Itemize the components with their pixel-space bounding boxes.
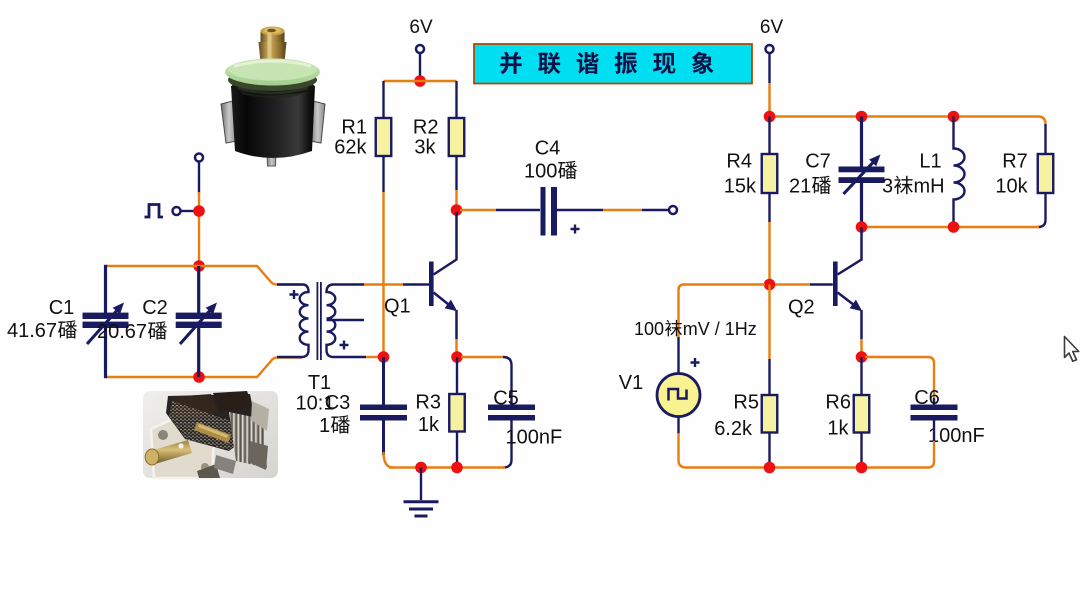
wire V1 top — [679, 285, 766, 338]
svg-text:R3: R3 — [415, 392, 441, 414]
resistor R7 top lead — [1044, 124, 1046, 154]
resistor R7 bottom lead — [1038, 193, 1046, 227]
wire T1 secondary bottom to node — [366, 356, 378, 358]
capacitor C6 plates — [911, 405, 958, 411]
capacitor C7 arrow — [844, 160, 876, 194]
photo: variable capacitor — [143, 391, 278, 478]
svg-text:C2: C2 — [142, 297, 168, 319]
node: rail at R6 — [856, 462, 868, 474]
svg-text:C5: C5 — [493, 388, 519, 410]
transistor Q1 emitter — [434, 293, 451, 307]
photo: trimmer capacitor — [221, 27, 325, 167]
svg-text:Q1: Q1 — [384, 296, 411, 318]
capacitor C3 top lead — [382, 357, 385, 405]
polarity + (C4) — [571, 225, 580, 234]
transformer T1 secondary tap — [327, 319, 365, 321]
resistor R3 top lead — [456, 357, 458, 394]
capacitor C3 bottom lead — [382, 421, 385, 456]
node: tank bottom — [193, 371, 205, 383]
input terminal (pulse) — [173, 207, 181, 215]
node: input junction — [193, 205, 205, 217]
capacitor C2 plates — [176, 313, 222, 319]
wire input drop — [198, 161, 200, 193]
svg-text:1k: 1k — [827, 418, 849, 440]
node: rail at C7 — [856, 111, 868, 123]
svg-text:100nF: 100nF — [506, 427, 563, 449]
svg-text:20.67: 20.67 — [97, 321, 147, 343]
title box — [474, 44, 752, 84]
node: rail at R4 — [764, 111, 776, 123]
resistor R4 top lead — [768, 117, 770, 155]
capacitor C7 bottom lead — [860, 183, 863, 227]
svg-text:100nF: 100nF — [928, 425, 985, 447]
svg-text:mV / 1Hz: mV / 1Hz — [683, 319, 757, 339]
svg-text:R7: R7 — [1002, 151, 1028, 173]
svg-text:C6: C6 — [914, 387, 940, 409]
capacitor C5 bottom lead — [503, 421, 512, 468]
node: Q1 emitter junction — [451, 351, 463, 363]
svg-text:C4: C4 — [535, 138, 561, 160]
wire C4 to output — [557, 209, 603, 211]
svg-text:6V: 6V — [409, 17, 433, 38]
title text 并联谐振现象 — [500, 52, 521, 74]
svg-text:C1: C1 — [49, 297, 75, 319]
transformer T1 core — [316, 282, 318, 360]
source V1 waveform — [669, 389, 687, 401]
transformer T1 secondary winding — [327, 285, 367, 358]
wire tank bottom rail — [106, 358, 303, 378]
svg-text:Q2: Q2 — [788, 297, 815, 319]
transistor Q2 collector — [838, 227, 862, 275]
svg-text:T1: T1 — [308, 372, 331, 394]
svg-text:C7: C7 — [805, 151, 831, 173]
svg-text:41.67: 41.67 — [7, 320, 57, 342]
wire pulse to node — [180, 210, 194, 212]
capacitor C3 plates — [360, 405, 407, 411]
power label 6V (left supply) — [409, 17, 433, 38]
svg-text:R2: R2 — [413, 117, 439, 139]
node: tank top — [193, 260, 205, 272]
capacitor C2 top lead — [197, 266, 200, 313]
node: T1/C3 junction — [378, 351, 390, 363]
capacitor C4 — [541, 187, 546, 236]
node: Q1 collector / C4 — [451, 204, 463, 216]
svg-text:3: 3 — [882, 176, 893, 198]
resistor R5 bottom lead — [768, 433, 770, 468]
input terminal top — [195, 154, 203, 162]
node: rail at R5 — [764, 462, 776, 474]
capacitor C5 plates — [488, 405, 535, 411]
svg-text:L1: L1 — [919, 151, 941, 173]
wire 6V left drop — [419, 53, 421, 77]
capacitor C2 arrow — [180, 308, 212, 344]
capacitor C7 top lead — [860, 117, 863, 168]
wire tank top rail (right) — [770, 117, 1046, 125]
capacitor C1 arrow — [87, 308, 119, 344]
transformer T1 primary winding — [277, 285, 309, 358]
svg-text:mH: mH — [914, 176, 945, 198]
wire R1 bottom (navy part) — [382, 156, 384, 192]
transistor Q2 base bar — [833, 262, 838, 307]
svg-text:10k: 10k — [995, 176, 1028, 198]
wire tank top rail — [106, 266, 303, 285]
svg-text:15k: 15k — [724, 176, 757, 198]
wire tank bottom rail (right) — [862, 226, 1040, 228]
svg-text:R4: R4 — [726, 151, 752, 173]
resistor R5 — [762, 395, 778, 433]
node: R3 bottom junction — [451, 462, 463, 474]
resistor R4 — [762, 154, 778, 193]
polarity + (V1) — [691, 358, 700, 367]
node: Q2 emitter junction — [856, 351, 868, 363]
svg-text:21: 21 — [789, 176, 811, 198]
node: tank bottom at L1 — [948, 221, 960, 233]
transistor Q1 base bar — [429, 262, 434, 307]
transistor Q2 emitter — [838, 293, 856, 307]
capacitor C1 top lead — [104, 265, 107, 313]
wire bottom rail (right) — [686, 466, 928, 468]
output terminal (left stage) — [669, 206, 677, 214]
resistor R4 bottom lead — [768, 193, 770, 222]
svg-text:V1: V1 — [619, 372, 643, 394]
resistor R5 top lead — [768, 285, 770, 360]
node: Q2 base junction — [764, 279, 776, 291]
wire T1 to Q1 base — [364, 283, 403, 285]
node: ground junction — [415, 462, 427, 474]
inductor L1 — [954, 117, 965, 228]
capacitor C6 bottom lead — [933, 421, 935, 442]
capacitor C1 plates — [83, 313, 129, 319]
wire 6V right drop — [768, 53, 770, 83]
capacitor C2 bottom lead — [197, 328, 200, 377]
capacitor C1 bottom lead — [104, 328, 107, 378]
polarity + (T1 secondary) — [340, 341, 349, 350]
svg-text:6.2k: 6.2k — [714, 418, 753, 440]
wire ground rail — [389, 466, 505, 468]
wire collector to C4 — [460, 209, 496, 211]
resistor R7 — [1038, 154, 1054, 193]
resistor R6 top lead — [860, 357, 862, 395]
svg-text:1k: 1k — [418, 414, 440, 436]
resistor R3 — [449, 394, 465, 432]
resistor R2 — [449, 118, 465, 156]
resistor R3 bottom lead — [456, 432, 458, 468]
wire V1 bottom — [677, 417, 679, 435]
svg-text:C3: C3 — [325, 392, 351, 414]
capacitor C7 plates — [839, 167, 885, 173]
node: rail at L1 — [948, 111, 960, 123]
node: left 6V rail junction — [414, 75, 426, 87]
wire R2 top — [455, 81, 457, 118]
power terminal 6V left — [416, 45, 424, 53]
svg-text:R6: R6 — [825, 392, 851, 414]
wire R2 bottom — [455, 156, 457, 190]
node: tank bottom at Q2 collector — [856, 221, 868, 233]
wire R1 to node (orange) — [382, 192, 384, 354]
wire emitter to C6 — [865, 356, 928, 358]
svg-text:100: 100 — [524, 161, 557, 183]
resistor R6 — [854, 395, 870, 433]
polarity + (T1 primary) — [290, 290, 299, 299]
svg-text:3k: 3k — [414, 137, 436, 159]
transistor Q1 collector — [434, 212, 457, 275]
resistor R1 — [376, 118, 392, 156]
ground — [420, 468, 422, 501]
wire left 6V rail — [384, 80, 457, 82]
mouse cursor — [1065, 337, 1079, 362]
svg-text:100: 100 — [634, 319, 664, 339]
svg-text:6V: 6V — [760, 17, 784, 38]
pulse source symbol — [145, 205, 164, 218]
wire base junction to Q2 — [773, 283, 810, 285]
wire R1 top — [382, 81, 384, 118]
wire C3 to ground rail — [384, 452, 394, 468]
svg-text:62k: 62k — [334, 137, 367, 159]
source V1 circle — [657, 374, 700, 417]
power terminal 6V right — [766, 45, 774, 53]
wire emitter to C5 — [461, 356, 503, 358]
resistor R6 bottom lead — [860, 433, 862, 468]
svg-text:R1: R1 — [341, 117, 367, 139]
svg-text:R5: R5 — [733, 392, 759, 414]
svg-text:1: 1 — [319, 415, 330, 437]
